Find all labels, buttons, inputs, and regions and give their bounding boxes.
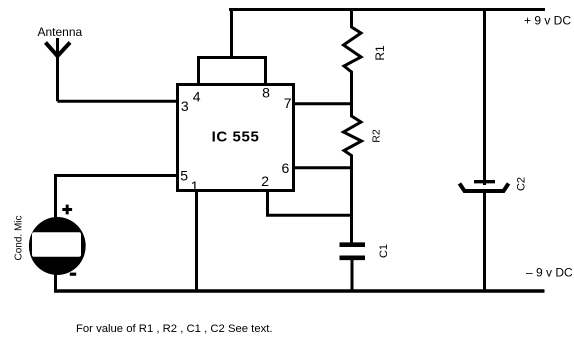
svg-text:C1: C1: [378, 244, 390, 258]
svg-text:5: 5: [180, 168, 188, 184]
svg-text:Antenna: Antenna: [38, 25, 83, 39]
svg-text:+ 9 v DC: + 9 v DC: [524, 14, 571, 28]
svg-text:R1: R1: [373, 45, 387, 61]
svg-text:R2: R2: [371, 129, 383, 143]
svg-text:For value of R1 , R2 , C1 , C2: For value of R1 , R2 , C1 , C2 See text.: [76, 323, 273, 335]
svg-text:6: 6: [282, 160, 290, 176]
svg-text:IC 555: IC 555: [212, 129, 260, 146]
svg-text:7: 7: [284, 95, 292, 111]
svg-text:Cond. Mic: Cond. Mic: [14, 215, 25, 260]
svg-text:– 9 v DC: – 9 v DC: [526, 266, 573, 280]
svg-text:2: 2: [261, 173, 269, 189]
svg-text:4: 4: [193, 89, 201, 105]
svg-text:C2: C2: [516, 177, 528, 191]
svg-text:8: 8: [262, 85, 270, 101]
svg-text:1: 1: [191, 178, 199, 194]
svg-text:3: 3: [181, 98, 189, 114]
